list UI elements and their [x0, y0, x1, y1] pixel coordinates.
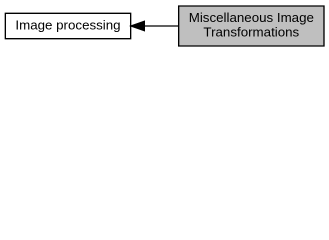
edge Node2->Node1: wire — [145, 25, 179, 27]
svg-text:Image processing: Image processing — [15, 17, 120, 32]
background — [0, 0, 329, 52]
arrowhead at Node2 — [131, 21, 144, 30]
node Node2: Image processing — [5, 13, 130, 38]
svg-text:Transformations: Transformations — [203, 25, 299, 40]
doxygen group dependency graph — [0, 0, 329, 52]
node Node1: Miscellaneous Image Transformations — [179, 6, 324, 46]
svg-text:Miscellaneous Image: Miscellaneous Image — [189, 10, 314, 25]
